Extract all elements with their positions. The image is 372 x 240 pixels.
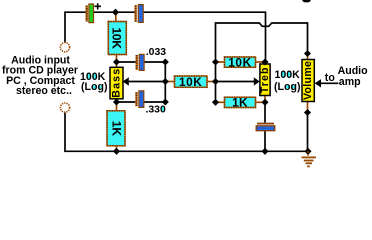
node junction cap column bottom (162, 98, 169, 105)
wiper arrow of Treb (254, 77, 260, 85)
node junction treble rail bottom (212, 99, 219, 106)
capacitor C4 .330 blue plate (139, 91, 144, 108)
wire bottom ground rail (65, 113, 308, 152)
svg-text:(Log): (Log) (274, 81, 300, 93)
svg-text:Bass: Bass (111, 68, 123, 98)
svg-text:stereo etc..: stereo etc.. (16, 85, 72, 97)
capacitor C3 .033 left plate (136, 55, 138, 70)
capacitor C5 bottom plate (256, 126, 275, 131)
svg-text:(Log): (Log) (81, 81, 107, 93)
wire bass top row (117, 61, 166, 63)
wire volume bottom column (307, 114, 309, 151)
wire treb wiper segment (216, 81, 255, 83)
label 100K (Log) bass (80, 71, 107, 93)
svg-text:1K: 1K (110, 121, 124, 137)
wire between C1 and C2 (94, 11, 135, 13)
label 100K (Log) treble (274, 69, 300, 93)
potentiometer VR3 Volume (302, 60, 314, 102)
lead R1 top (115, 12, 117, 21)
lead R4 left (216, 101, 225, 103)
node junction C1-C2 (112, 9, 119, 16)
capacitor C2 blue plate (138, 5, 143, 23)
svg-text:.330: .330 (146, 105, 166, 116)
svg-text:100K: 100K (275, 69, 301, 81)
potentiometer VR2 Treb (259, 64, 271, 96)
capacitor C1 electrolytic left plate (86, 6, 88, 22)
capacitor C4 .330 left plate (135, 92, 137, 106)
resistor R4 1K treble bottom (225, 96, 256, 110)
label audio input paragraph (2, 54, 78, 97)
svg-text:to: to (325, 72, 336, 84)
resistor R5 1K vertical (107, 111, 125, 146)
resistor R3 10K treble top (225, 55, 256, 69)
capacitor C1 electrolytic green plate (89, 4, 94, 23)
svg-text:.033: .033 (146, 47, 166, 58)
label .330 with cyan filled zero (146, 105, 166, 116)
ground symbol (302, 151, 317, 166)
svg-text:10K: 10K (110, 27, 124, 49)
artifact blob top edge (302, 0, 310, 2)
svg-text:amp: amp (339, 76, 361, 88)
wiper arrow of Volume (315, 79, 321, 87)
node junction ground (304, 148, 311, 155)
wire second rail with hop (216, 23, 308, 102)
wire left cap column (164, 62, 166, 102)
lead treb pot bottom (264, 96, 266, 103)
wire bass wiper row (128, 81, 165, 83)
lead treb pot top (264, 62, 266, 64)
capacitor C2 left plate (135, 5, 137, 22)
lead R4 right (256, 101, 263, 103)
node junction 1K to rail (113, 148, 120, 155)
lead volume pot bottom (307, 102, 309, 112)
node junction volume top (304, 50, 311, 57)
lead R2 left (165, 81, 174, 83)
lead bass pot top (116, 62, 118, 68)
node junction cap column mid (162, 78, 169, 85)
node junction cap to rail (261, 148, 268, 155)
label to Audio amp (325, 65, 368, 88)
node junction cap column top (162, 58, 169, 65)
node junction volume bottom (304, 109, 311, 116)
node junction treble rail mid (212, 78, 219, 85)
resistor R1 10K vertical (108, 22, 126, 55)
wire bass bottom row (117, 101, 166, 103)
wire from C2 to treble top node (143, 12, 265, 60)
svg-text:10K: 10K (228, 55, 251, 69)
node junction bass top (113, 58, 120, 65)
node junction treb pot bottom (261, 99, 268, 106)
lead volume pot top (307, 54, 309, 60)
resistor R2 10K horizontal (175, 75, 208, 89)
lead bass pot bottom (116, 99, 118, 103)
potentiometer VR1 Bass (110, 67, 123, 99)
capacitor C3 .033 blue plate (139, 54, 144, 70)
lead R5 bottom (116, 146, 118, 152)
wiper arrow of Bass (123, 77, 129, 85)
wire input riser to top rail (65, 12, 86, 42)
node junction bass bottom (113, 98, 120, 105)
lead R1 bottom to node (116, 55, 118, 63)
input terminal bottom circle (60, 103, 69, 112)
wire volume wiper line (321, 82, 339, 84)
wire treble cap column (264, 102, 266, 151)
capacitor C5 top plate (257, 123, 274, 125)
plus sign of C1 (95, 3, 102, 9)
svg-text:1K: 1K (232, 96, 248, 110)
node junction treb pot top (261, 58, 268, 65)
svg-text:10K: 10K (179, 75, 202, 89)
svg-text:Treb: Treb (259, 66, 271, 93)
lead R3 right (256, 61, 263, 63)
node junction treble rail top (212, 58, 219, 65)
lead R3 left (216, 61, 225, 63)
lead R2 right (207, 81, 216, 83)
lead R5 top (116, 102, 118, 111)
input terminal top circle (60, 43, 69, 52)
svg-text:Volume: Volume (302, 61, 314, 100)
